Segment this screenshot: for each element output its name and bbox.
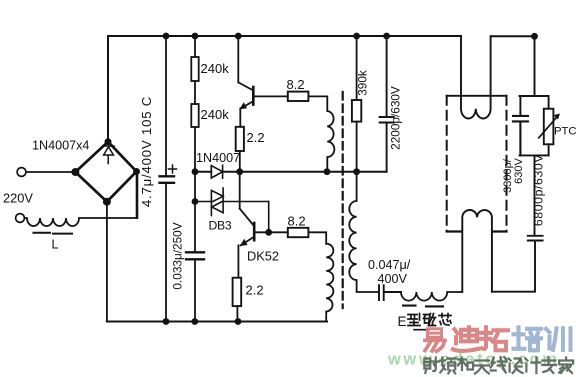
transistor Q2 DK52	[240, 172, 288, 246]
wire mid node down to diac node and cap	[194, 172, 196, 252]
glyph ji	[525, 358, 540, 374]
wire PTC parallel bottom bar	[520, 155, 549, 235]
inductor L	[25, 218, 137, 226]
label E-core glyph xing	[408, 314, 420, 326]
capacitor C2 0.033u/250V	[186, 252, 204, 259]
winding L2 (T1 output)	[349, 172, 379, 292]
svg-text:8.2: 8.2	[287, 77, 305, 92]
wire upper terminal to bridge	[26, 171, 75, 173]
node bridge vertex dots	[71, 138, 140, 206]
svg-text:0.033μ/250V: 0.033μ/250V	[170, 222, 184, 289]
glyph pin	[440, 358, 456, 374]
terminal 220V upper	[17, 168, 26, 177]
svg-text:2.2: 2.2	[247, 130, 265, 145]
wire PTC parallel top bar	[520, 96, 549, 116]
watermark big glyph pei (blue)	[514, 327, 542, 350]
glyph he	[458, 358, 473, 371]
watermark big glyph xun (blue)	[546, 328, 571, 350]
wire bottom rail	[107, 321, 327, 323]
wire top-left drop to bridge	[107, 36, 109, 142]
capacitor C5 3300p/630V	[513, 116, 528, 155]
resistor R3 8.2 (Q1 base)	[288, 92, 309, 101]
terminal 220V lower	[16, 214, 25, 223]
transistor Q1	[238, 36, 287, 109]
wire 8.2 to winding L1	[308, 96, 327, 111]
lamp filament bottom	[462, 210, 492, 292]
resistor R7 390k	[356, 36, 358, 100]
resistor R5 8.2 (Q2 base)	[288, 228, 309, 237]
svg-text:630V: 630V	[513, 157, 525, 183]
capacitor C1 4.7u/400V column	[165, 36, 167, 322]
diac DB3	[195, 188, 269, 216]
wire Q2 emitter to 2.2	[237, 245, 239, 277]
glyph jia	[559, 358, 573, 374]
polarity plus of C1	[169, 165, 177, 173]
glyph zhuan	[542, 358, 556, 374]
node bottom rail dots	[163, 318, 242, 325]
wire L to bridge right vertex	[136, 172, 139, 218]
glyph she2	[509, 359, 523, 374]
transformer T1 core (dashed)	[342, 92, 344, 308]
thermistor PTC	[544, 109, 554, 145]
winding L3 (T1 lower feedback)	[326, 244, 333, 322]
watermark gray line2	[424, 358, 573, 374]
watermark big glyph yi (pink)	[425, 329, 445, 352]
resistor R6 2.2 (Q2 emitter)	[233, 278, 242, 306]
svg-text:400V: 400V	[378, 272, 408, 286]
svg-text:240k: 240k	[201, 61, 230, 76]
svg-text:DB3: DB3	[209, 219, 232, 233]
wire diac to Q2 base	[268, 202, 270, 233]
resistor R1 240k	[194, 36, 196, 57]
resistor R4 2.2 (Q1 emitter)	[236, 127, 244, 151]
svg-text:1N4007x4: 1N4007x4	[32, 139, 89, 153]
svg-text:390k: 390k	[355, 70, 369, 96]
glyph she	[424, 358, 439, 374]
svg-text:E: E	[398, 314, 407, 329]
wire top rail	[108, 35, 461, 37]
diode D5 1N4007 in mid rail	[211, 165, 222, 178]
svg-text:0.047μ/: 0.047μ/	[368, 258, 411, 272]
svg-text:2200p/630V: 2200p/630V	[389, 86, 403, 150]
wire Q1 emitter to 2.2	[239, 109, 241, 127]
svg-text:1N4007: 1N4007	[196, 151, 240, 165]
glyph xian	[491, 358, 507, 373]
label E-core underline	[414, 329, 429, 331]
wire 240k to mid rail	[194, 127, 196, 172]
label E-core glyph ci	[424, 314, 436, 326]
wire mid rail	[195, 171, 387, 173]
capacitor C3 2200p/630V	[380, 36, 394, 172]
svg-text:DK52: DK52	[247, 249, 279, 264]
lamp tube right edge (dashed)	[506, 96, 508, 232]
node top rail dots	[163, 33, 538, 40]
svg-text:PTC: PTC	[554, 126, 576, 138]
svg-text:240k: 240k	[201, 107, 230, 122]
glyph tian	[475, 361, 489, 374]
wire top segment lamp-right to PTC node	[491, 35, 535, 37]
svg-text:220V: 220V	[3, 191, 33, 206]
lamp tube bottom edge	[447, 230, 507, 232]
inductor L core bars	[34, 232, 73, 235]
node mid rail dots	[192, 168, 360, 235]
winding L1 (T1 upper feedback)	[327, 111, 334, 172]
bridge rectifier diamond	[75, 142, 136, 202]
svg-text:6800p/630V: 6800p/630V	[532, 154, 546, 227]
resistor R2 240k	[194, 81, 196, 104]
wire 2.2 to mid rail	[239, 151, 241, 172]
wire bridge minus to bottom rail	[106, 202, 108, 322]
watermark big glyph di (pink)	[453, 327, 479, 351]
svg-text:4.7μ/400V 105 C: 4.7μ/400V 105 C	[139, 96, 154, 207]
capacitor C6 6800p/630V	[492, 236, 543, 292]
inductor E-core bars	[403, 305, 443, 308]
bridge inner diode	[103, 146, 114, 164]
svg-text:8.2: 8.2	[288, 214, 306, 229]
wire 2.2 to bottom rail	[236, 306, 238, 321]
watermark big glyph tuo (pink)	[481, 327, 508, 350]
lamp tube top edge	[447, 95, 507, 97]
lamp filament top	[461, 36, 491, 118]
svg-text:L: L	[52, 238, 59, 252]
inductor L2 E-core	[401, 292, 462, 301]
label E-core glyph xin	[439, 314, 451, 326]
wire PTC feed from top node	[534, 36, 536, 96]
wire 8.2 to winding L3	[308, 232, 326, 243]
lamp tube left edge (dashed)	[446, 96, 448, 232]
svg-text:2.2: 2.2	[246, 283, 264, 298]
capacitor C4 0.047u/400V	[379, 285, 401, 300]
